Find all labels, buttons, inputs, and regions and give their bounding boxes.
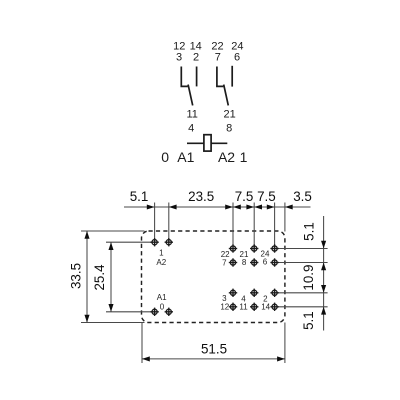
ext line col pad A2-left [154,203,156,243]
svg-text:A1: A1 [157,293,167,302]
svg-text:11: 11 [186,109,197,121]
svg-text:6: 6 [234,52,240,64]
pad 4 [250,289,258,297]
wire: throw 14/2 terminal [196,67,198,87]
wire: coil right lead A2 [211,142,227,144]
pad 7 [229,258,237,266]
svg-text:12: 12 [220,303,229,312]
arrow 5.1 right / 23.5 left (shared) [169,204,177,209]
svg-text:1: 1 [240,149,248,165]
wire: pole 12/3 fixed contact [181,67,188,87]
ext line col pad A2-right [168,203,170,243]
svg-text:A2: A2 [218,149,235,165]
extension lines (thin) [81,203,328,364]
arrow 51.5 right [277,356,285,361]
svg-text:A2: A2 [156,258,166,267]
arrow 7.5a left [233,204,241,209]
svg-text:7: 7 [222,258,227,267]
relay outline (dashed rounded rectangle) [142,231,285,323]
ext line row 3-4-2 [278,292,328,294]
svg-text:5.1: 5.1 [301,311,316,330]
ext line bottom-left corner (51.5) [141,323,143,364]
pad 24 [270,244,278,252]
dimension line 51.5 [142,358,285,360]
arrow right 5.1 top (outside above row1) [321,241,326,249]
pad 6 [270,258,278,266]
pad 3 [229,289,237,297]
svg-text:4: 4 [188,123,194,135]
contact arm 22-21 (moving blade) [224,85,229,106]
dimension line 25.4 [110,242,112,312]
svg-text:14: 14 [261,303,270,312]
ext line row 22-21-24 [278,248,328,250]
arrow 23.5 right [225,204,233,209]
ext line col 21 [253,203,255,249]
arrow 7.5b right / 3.5 left (shared) [267,204,275,209]
pad A1 pole right [165,308,173,316]
arrow 25.4 bottom [108,304,113,312]
ext line bottom-right corner (51.5) [284,323,286,364]
ext line outline bottom edge (33.5) [81,322,145,324]
pad A2 pole right [165,238,173,246]
svg-text:3.5: 3.5 [293,189,312,204]
arrow right 10.9/5.1 at row3 [321,285,326,293]
arrow 3.5 right (outside) [285,204,293,209]
svg-text:11: 11 [239,303,248,312]
svg-text:5.1: 5.1 [302,222,317,241]
dimension line 33.5 [86,231,88,323]
arrow 33.5 top [84,231,89,239]
svg-text:23.5: 23.5 [188,189,214,204]
svg-text:8: 8 [226,123,232,135]
arrowheads [84,204,326,361]
svg-text:A1: A1 [177,149,194,165]
pad A1 pole left (pin 0) [150,308,158,316]
svg-text:7.5: 7.5 [257,189,276,204]
ext line row 7-8-6 [278,262,328,264]
svg-text:1: 1 [159,248,164,257]
pads: circle + crosshair [150,238,278,316]
pad 14 [270,303,278,311]
wire: pole 22/7 fixed contact [217,67,224,87]
svg-text:0: 0 [160,302,165,311]
arrow 7.5a right [246,204,254,209]
dimension line top chain [124,206,311,208]
svg-text:25.4: 25.4 [92,264,107,291]
arrow right 5.1 bottom (outside below row4) [321,307,326,315]
arrow 51.5 left [142,356,150,361]
wire: coil left lead A1 [187,142,204,144]
contact arm 12-11 (moving blade) [188,85,193,106]
svg-text:10.9: 10.9 [301,265,316,291]
svg-text:8: 8 [242,258,247,267]
svg-text:6: 6 [263,258,268,267]
ext line row A1 pads (25.4) [106,311,152,313]
arrow 25.4 top [108,242,113,250]
ext line outline right edge [284,203,286,232]
ext line row 12-11-14 [278,306,328,308]
svg-text:7.5: 7.5 [235,189,254,204]
svg-text:51.5: 51.5 [201,341,227,356]
svg-text:21: 21 [223,109,235,121]
ext line row A2 pads (25.4) [106,241,152,243]
arrow 33.5 bottom [84,315,89,323]
pad 11 [250,303,258,311]
pad A2 pole left (pin 1) [150,238,158,246]
svg-text:2: 2 [193,52,199,64]
ext line outline top edge (33.5) [81,230,145,232]
svg-text:5.1: 5.1 [130,189,149,204]
pad 21 [250,244,258,252]
arrow right 5.1/10.9 at row2 [321,263,326,271]
pad 8 [250,258,258,266]
arrow 7.5b left [254,204,262,209]
ext line col 22 [232,203,234,249]
arrow 5.1 left (outside) [147,204,155,209]
wire: throw 24/6 terminal [231,66,233,87]
pad 22 [229,244,237,252]
dimension line right chain [323,216,325,331]
svg-text:3: 3 [176,52,182,64]
svg-text:3: 3 [222,294,227,303]
svg-text:7: 7 [215,52,221,64]
svg-text:33.5: 33.5 [69,263,84,289]
pad 12 [229,303,237,311]
pad 2 [270,289,278,297]
coil A1-A2 (rectangle body) [204,135,211,151]
svg-text:0: 0 [161,149,169,165]
ext line col 24 [274,203,276,249]
